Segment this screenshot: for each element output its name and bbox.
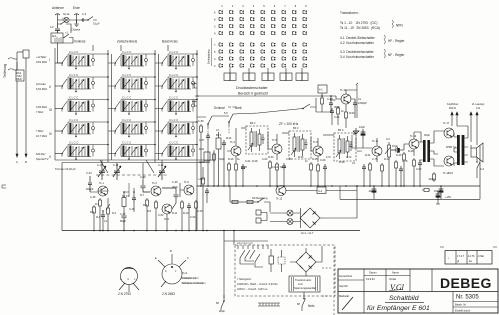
transistor Ts 12 agc xyxy=(276,186,286,196)
right edge drop xyxy=(477,145,480,186)
link row 1 z-b xyxy=(148,54,162,63)
Ts9 components xyxy=(181,200,184,210)
regulator box 4-1 xyxy=(318,85,327,93)
svg-text:MHz: MHz xyxy=(17,77,23,81)
svg-text:V.Gl: V.Gl xyxy=(390,283,405,292)
svg-text:Name: Name xyxy=(392,271,399,275)
osc coupling cap xyxy=(132,195,136,203)
matrix contact r3c8 xyxy=(293,24,297,28)
Ts11 emitter parts xyxy=(369,162,372,172)
svg-text:Band-Kreis: Band-Kreis xyxy=(162,40,178,44)
svg-text:NPN: NPN xyxy=(396,24,403,28)
svg-text:Ts 6: Ts 6 xyxy=(313,140,318,144)
svg-text:1k: 1k xyxy=(341,110,344,113)
svg-text:NF - Regler: NF - Regler xyxy=(388,53,405,57)
netz switch xyxy=(302,292,306,311)
svg-text:BF 4: BF 4 xyxy=(338,128,344,132)
row 5 switch col1 xyxy=(55,153,62,155)
svg-text:Netz: Netz xyxy=(308,304,315,308)
regler switch xyxy=(258,198,270,202)
svg-text:7 MHz: 7 MHz xyxy=(36,129,44,133)
resistor box Rö xyxy=(16,70,24,81)
link row 1 v-z xyxy=(95,54,115,63)
matrix contact r1c4 xyxy=(251,10,255,14)
svg-text:C-62: C-62 xyxy=(245,160,251,163)
tick mark xyxy=(356,83,358,85)
input coil Sp1 xyxy=(51,33,63,43)
svg-text:Sp30: Sp30 xyxy=(199,161,205,164)
matrix contact r4c3 xyxy=(240,31,244,34)
matrix contact r7c3 xyxy=(240,57,244,61)
Ts2 resistors xyxy=(146,198,149,208)
svg-text:c: c xyxy=(134,278,136,281)
svg-text:6P: 6P xyxy=(297,302,300,306)
svg-text:Sp28: Sp28 xyxy=(241,166,247,169)
connector box 5 xyxy=(296,73,302,81)
matrix contact r2c7 xyxy=(282,17,286,21)
link row 4 to right bus xyxy=(195,121,197,123)
matrix contact r1c9 xyxy=(303,10,307,14)
Ts1 bottom cap xyxy=(101,212,105,220)
svg-text:2 µF: 2 µF xyxy=(219,309,225,313)
left selector bus xyxy=(54,48,56,160)
matrix contact r5c7 xyxy=(282,43,286,47)
svg-text:C-46: C-46 xyxy=(172,180,178,184)
svg-text:R-3: R-3 xyxy=(96,216,101,219)
svg-text:BF 1: BF 1 xyxy=(216,133,222,137)
switch schmal xyxy=(208,116,212,128)
erde terminal xyxy=(74,14,79,23)
svg-text:R-7: R-7 xyxy=(140,194,145,197)
svg-text:R-33: R-33 xyxy=(298,156,304,159)
svg-text:Ts 11: Ts 11 xyxy=(372,139,379,143)
matrix contact r1c5 xyxy=(261,10,265,14)
matrix contact r5c9 xyxy=(303,43,307,47)
svg-text:8: 8 xyxy=(214,17,216,21)
svg-text:Nr. 5305: Nr. 5305 xyxy=(456,295,479,301)
matrix contact r7c4 xyxy=(251,57,255,61)
svg-text:2: 2 xyxy=(232,4,234,8)
matrix contact r2c2 xyxy=(230,17,234,21)
svg-text:Transistoren :: Transistoren : xyxy=(340,11,359,15)
wire antenna into grid xyxy=(58,51,63,63)
psu bridge rectifier xyxy=(296,252,316,272)
svg-text:4-1 Deckel-Siebschalter: 4-1 Deckel-Siebschalter xyxy=(340,36,376,40)
svg-text:C-75: C-75 xyxy=(372,158,378,161)
matrix contact r1c1 xyxy=(219,10,223,14)
filter block left xyxy=(204,152,210,161)
revision strip xyxy=(445,251,492,265)
link row 2 v-z xyxy=(95,77,115,86)
link row 5 v-z xyxy=(95,145,115,154)
svg-text:C-52: C-52 xyxy=(158,214,164,217)
svg-text:4: 4 xyxy=(253,4,255,8)
svg-text:30pF: 30pF xyxy=(172,185,178,189)
svg-text:1000pF: 1000pF xyxy=(358,101,367,105)
trimmer CV xyxy=(55,23,60,33)
psu selector contacts xyxy=(238,245,268,249)
node dots mixer xyxy=(123,191,125,193)
tuned circuit Band-Kreis row 5 xyxy=(162,141,195,160)
transformer box xyxy=(289,276,320,292)
coupling box top of bus B xyxy=(23,50,29,58)
matrix contact r1c3 xyxy=(240,10,244,14)
matrix contact r6c9 xyxy=(303,50,307,54)
svg-text:schmale: schmale xyxy=(36,82,46,86)
matrix contact r3c1 xyxy=(219,24,223,28)
matrix contact r2c4 xyxy=(251,17,255,21)
title block frame xyxy=(338,269,498,313)
matrix contact r4c6 xyxy=(272,31,276,34)
agc switch right xyxy=(303,98,316,109)
svg-text:6: 6 xyxy=(274,4,276,8)
svg-text:Ts 17: Ts 17 xyxy=(443,121,450,125)
matrix contact r7c7 xyxy=(282,57,286,61)
svg-text:2l.-Lautspr.: 2l.-Lautspr. xyxy=(472,102,485,106)
matrix contact r4c4 xyxy=(251,31,255,34)
svg-text:4,7k: 4,7k xyxy=(326,156,331,159)
svg-text:C-2: C-2 xyxy=(82,12,87,16)
svg-text:5: 5 xyxy=(263,4,265,8)
svg-text:Gl-1a: Gl-1a xyxy=(63,12,70,16)
svg-text:2 N 2653: 2 N 2653 xyxy=(162,292,175,296)
svg-text:CV: CV xyxy=(50,25,54,29)
Ts1 emitter resistor xyxy=(99,198,102,208)
svg-text:600 Ω: 600 Ω xyxy=(449,106,456,110)
connector box 1 xyxy=(224,73,230,81)
svg-text:I: I xyxy=(49,58,50,62)
svg-text:Zwischenkreis: Zwischenkreis xyxy=(117,40,138,44)
svg-text:7 MHz: 7 MHz xyxy=(36,110,44,114)
svg-text:III: III xyxy=(49,108,52,112)
svg-text:5-6: 5-6 xyxy=(224,111,228,115)
matrix contact r8c4 xyxy=(251,64,255,68)
margin mark xyxy=(2,185,6,188)
right grid bus xyxy=(195,50,199,230)
matrix contact r8c5 xyxy=(261,64,265,68)
matrix contact r2c1 xyxy=(219,17,223,21)
rail junction dots xyxy=(200,185,442,187)
svg-text:R-21: R-21 xyxy=(199,148,205,151)
output transformer xyxy=(457,135,460,165)
psu dashed component xyxy=(278,257,285,264)
svg-text:R-1: R-1 xyxy=(95,202,100,206)
svg-text:C-12: C-12 xyxy=(158,163,164,167)
svg-text:Erde: Erde xyxy=(73,6,80,10)
wire bus A xyxy=(16,52,18,157)
svg-text:+15V: +15V xyxy=(445,195,451,199)
matrix contact r8c6 xyxy=(272,64,276,68)
link row 4 v-z xyxy=(95,122,115,131)
svg-text:Maßstab: Maßstab xyxy=(339,294,350,298)
svg-text:C-45: C-45 xyxy=(90,196,96,199)
matrix contact r4c9 xyxy=(303,31,307,34)
bridge rectifier Gl4-Gl7 xyxy=(300,208,320,228)
input connector a xyxy=(192,83,197,88)
svg-text:S-4: S-4 xyxy=(318,189,323,193)
connector box 2 xyxy=(243,73,249,81)
jack wires down xyxy=(452,119,477,145)
svg-text:zum: zum xyxy=(298,283,303,286)
svg-text:6: 6 xyxy=(214,10,216,14)
psu dashed box xyxy=(235,245,335,296)
link row 5 to right bus xyxy=(195,144,197,146)
svg-text:R-15: R-15 xyxy=(197,210,203,213)
svg-text:R-26: R-26 xyxy=(228,158,234,161)
matrix contact r8c9 xyxy=(303,64,307,68)
transistor Ts 3 xyxy=(162,204,172,214)
svg-text:3-4 Kurzhubumschalter: 3-4 Kurzhubumschalter xyxy=(340,55,375,59)
svg-text:C-78: C-78 xyxy=(402,160,408,163)
tuned circuit Vorkreis row 5 xyxy=(62,141,95,160)
svg-text:b: b xyxy=(165,269,167,273)
svg-text:Ts 5: Ts 5 xyxy=(272,138,277,142)
left battery switch xyxy=(221,295,224,312)
svg-text:C-69: C-69 xyxy=(320,159,326,162)
wire agc dashes xyxy=(208,126,229,136)
svg-text:C-66: C-66 xyxy=(286,158,292,161)
svg-text:0,1: 0,1 xyxy=(104,220,108,223)
svg-text:Ts 1 - 10 2N 2793 (OC): Ts 1 - 10 2N 2793 (OC) xyxy=(340,21,377,25)
svg-text:C-80: C-80 xyxy=(416,168,422,171)
svg-text:IV: IV xyxy=(49,132,53,136)
svg-text:Ts 4: Ts 4 xyxy=(230,140,235,144)
svg-text:Drucktastenschalter: Drucktastenschalter xyxy=(236,86,269,90)
psu resistor xyxy=(269,256,274,264)
meter terminals xyxy=(256,210,261,215)
switch box S-4 xyxy=(317,187,326,194)
svg-text:a b c d e f g h: a b c d e f g h xyxy=(237,241,253,245)
matrix contact r3c2 xyxy=(230,24,234,28)
matrix contact r5c6 xyxy=(272,43,276,47)
feed line 2 xyxy=(233,231,235,246)
link row 2 z-b xyxy=(148,77,162,86)
svg-text:Spezial TV: Spezial TV xyxy=(36,157,49,161)
svg-text:R-4: R-4 xyxy=(112,212,117,215)
main bottom rail xyxy=(62,230,360,232)
wire ts10 top xyxy=(346,85,357,118)
link row 3 v-z xyxy=(95,100,115,109)
row 3 switch col1 xyxy=(55,108,62,110)
svg-text:Ts 12: Ts 12 xyxy=(276,197,283,201)
svg-text:C-49: C-49 xyxy=(129,208,135,211)
matrix contact r5c2 xyxy=(230,43,234,47)
svg-text:80pF: 80pF xyxy=(120,219,126,223)
brace hf xyxy=(384,35,385,44)
svg-text:220V/= – Umsch. =24V us: 220V/= – Umsch. =24V us. xyxy=(237,287,268,291)
matrix contact r6c2 xyxy=(230,50,234,54)
svg-text:Schaltbild: Schaltbild xyxy=(389,295,419,302)
svg-text:R-30: R-30 xyxy=(268,156,274,159)
svg-text:c: c xyxy=(175,270,177,273)
matrix contact r5c4 xyxy=(251,43,255,47)
svg-text:für Empfänger E 601: für Empfänger E 601 xyxy=(367,305,430,312)
svg-text:C-47: C-47 xyxy=(120,212,126,216)
wire bf4 to ts11 xyxy=(351,135,353,148)
svg-text:V: V xyxy=(49,155,52,159)
svg-text:4: 4 xyxy=(214,57,216,61)
svg-text:C-82: C-82 xyxy=(334,116,340,119)
agc wire xyxy=(197,109,303,118)
matrix contact r5c8 xyxy=(293,43,297,47)
matrix contact r3c6 xyxy=(272,24,276,28)
switch to chassis xyxy=(88,17,97,21)
matrix contact r4c1 xyxy=(219,31,223,34)
matrix contact r2c5 xyxy=(261,17,265,21)
svg-text:Geprüft: Geprüft xyxy=(339,284,348,288)
svg-text:HF - Regler: HF - Regler xyxy=(388,39,405,43)
svg-text:Erstellt durch: Erstellt durch xyxy=(455,309,471,313)
svg-text:NF-Regelung: NF-Regelung xyxy=(252,196,268,200)
svg-text:Transformator: Transformator xyxy=(295,278,311,282)
svg-text:+1: +1 xyxy=(65,31,69,35)
row 1 switch col1 xyxy=(55,62,62,64)
matrix contact r2c3 xyxy=(240,17,244,21)
svg-text:R-5: R-5 xyxy=(143,203,148,207)
svg-text:7: 7 xyxy=(214,43,216,47)
svg-text:Ts 1: Ts 1 xyxy=(99,181,104,185)
matrix contact r4c7 xyxy=(282,31,286,34)
svg-text:3.NE: 3.NE xyxy=(478,254,484,258)
svg-text:Teilleitung: Teilleitung xyxy=(3,64,7,78)
matrix contact r3c7 xyxy=(282,24,286,28)
Ts1 base resistor xyxy=(93,205,96,215)
svg-text:Ts 3: Ts 3 xyxy=(164,217,169,221)
svg-text:A: A xyxy=(16,160,18,164)
svg-text:Antenne: Antenne xyxy=(52,6,64,10)
svg-text:R-35: R-35 xyxy=(312,158,318,161)
tuned circuit Band-Kreis row 2 xyxy=(162,73,195,92)
switch +1 xyxy=(63,34,73,43)
lower right components xyxy=(433,172,436,182)
wire bus B xyxy=(25,58,27,157)
matrix contact r6c1 xyxy=(219,50,223,54)
svg-text:R-2: R-2 xyxy=(90,210,95,214)
matrix contact r4c2 xyxy=(230,31,234,34)
matrix contact r6c4 xyxy=(251,50,255,54)
wire down from rail xyxy=(230,186,270,212)
svg-text:Chassis: Chassis xyxy=(71,28,81,32)
svg-text:0,1µF: 0,1µF xyxy=(272,166,279,169)
link row 5 z-b xyxy=(148,145,162,154)
case 2N 2793 xyxy=(121,268,138,285)
svg-text:Gl 4 ÷ Gl 7: Gl 4 ÷ Gl 7 xyxy=(301,231,314,235)
svg-text:Ts 18/19: Ts 18/19 xyxy=(443,171,453,175)
matrix contact r1c8 xyxy=(293,10,297,14)
svg-text:220/110V~ 50Hz – Umsch. 6,3V: 220/110V~ 50Hz – Umsch. 6,3V/12 xyxy=(237,282,278,286)
svg-text:Gezeichnet: Gezeichnet xyxy=(339,274,352,278)
svg-text:-20µF: -20µF xyxy=(428,177,435,181)
psu selector switches xyxy=(240,250,255,264)
link row 2 to right bus xyxy=(195,76,197,78)
svg-text:+12 MHz: +12 MHz xyxy=(36,55,47,59)
matrix contact r8c1 xyxy=(219,64,223,68)
terminal antenna input 1 xyxy=(8,58,17,59)
grid bottom rail xyxy=(55,160,215,163)
svg-text:= Netzgerät :: = Netzgerät : xyxy=(237,277,252,281)
svg-text:BF 3: BF 3 xyxy=(293,126,299,130)
svg-text:R-50: R-50 xyxy=(330,99,336,102)
matrix contact r5c3 xyxy=(240,43,244,47)
svg-text:BF 2: BF 2 xyxy=(250,121,256,125)
matrix contact r2c9 xyxy=(303,17,307,21)
matrix contact r4c5 xyxy=(261,31,265,34)
matrix contact r1c6 xyxy=(272,10,276,14)
svg-text:6,52 MHz: 6,52 MHz xyxy=(36,87,48,91)
matrix contact r7c9 xyxy=(303,57,307,61)
matrix contact r1c2 xyxy=(230,10,234,14)
svg-text:Schmal: Schmal xyxy=(214,106,225,110)
matrix contact r6c7 xyxy=(282,50,286,54)
svg-text:Trimmer 10-40 µF: Trimmer 10-40 µF xyxy=(55,167,76,171)
svg-text:3,65 MHz: 3,65 MHz xyxy=(36,105,48,109)
matrix contact r6c5 xyxy=(261,50,265,54)
resistor R-52 xyxy=(321,96,324,106)
svg-text:3-3 Deckeldrehschalter: 3-3 Deckeldrehschalter xyxy=(340,50,375,54)
switch breit xyxy=(229,114,233,126)
jack arrows xyxy=(451,112,458,119)
svg-text:Breit: Breit xyxy=(235,106,242,110)
title block grid lines xyxy=(338,291,498,293)
svg-text:Sp29: Sp29 xyxy=(280,166,286,169)
speaker xyxy=(471,148,477,157)
svg-text:1: 1 xyxy=(221,4,223,8)
transistor Ts 18 xyxy=(444,156,454,166)
svg-text:1k: 1k xyxy=(305,160,308,163)
group top feeds xyxy=(93,45,168,51)
svg-text:620 kHz: 620 kHz xyxy=(36,152,46,156)
svg-text:30pF: 30pF xyxy=(219,158,225,161)
tuned circuit Band-Kreis row 3 xyxy=(162,96,195,115)
matrix contact r5c5 xyxy=(261,43,265,47)
matrix contact r7c6 xyxy=(272,57,276,61)
Ts10 components xyxy=(337,106,340,116)
speaker switch xyxy=(471,145,480,172)
matrix contact r6c3 xyxy=(240,50,244,54)
row 4 switch col1 xyxy=(55,130,62,132)
svg-text:DEBEG: DEBEG xyxy=(440,275,492,291)
svg-text:R-28: R-28 xyxy=(252,160,258,163)
svg-text:•: • xyxy=(448,257,449,260)
matrix contact r3c3 xyxy=(240,24,244,28)
svg-text:B: B xyxy=(170,249,172,253)
svg-text:19.9.63: 19.9.63 xyxy=(366,277,375,281)
svg-text:4 Ω: 4 Ω xyxy=(476,106,480,110)
svg-text:4-2 Kurzhubumschalter: 4-2 Kurzhubumschalter xyxy=(340,41,375,45)
battery strip xyxy=(258,303,280,306)
case 2N 2653 xyxy=(162,264,182,284)
svg-text:4-1: 4-1 xyxy=(319,88,323,92)
band switch lever 1 xyxy=(100,160,108,173)
svg-text:Kopfhörer: Kopfhörer xyxy=(447,102,459,106)
svg-text:Vorkreis: Vorkreis xyxy=(74,40,86,44)
svg-text:S-2: S-2 xyxy=(480,167,485,171)
regler resistor 2 xyxy=(244,201,258,203)
matrix contact r7c5 xyxy=(261,57,265,61)
panel lamps xyxy=(287,210,293,216)
terminal antenna input 2 xyxy=(8,62,17,70)
svg-text:C-11: C-11 xyxy=(113,163,119,167)
svg-text:2: 2 xyxy=(214,64,216,68)
svg-text:9: 9 xyxy=(305,4,307,8)
svg-text:R-41: R-41 xyxy=(365,154,371,157)
input connector b xyxy=(192,101,197,106)
svg-text:2 N 2793: 2 N 2793 xyxy=(118,292,131,296)
matrix contact r1c7 xyxy=(282,10,286,14)
matrix contact r4c8 xyxy=(293,31,297,34)
brace nf xyxy=(384,49,385,58)
svg-text:R-38: R-38 xyxy=(339,161,345,164)
